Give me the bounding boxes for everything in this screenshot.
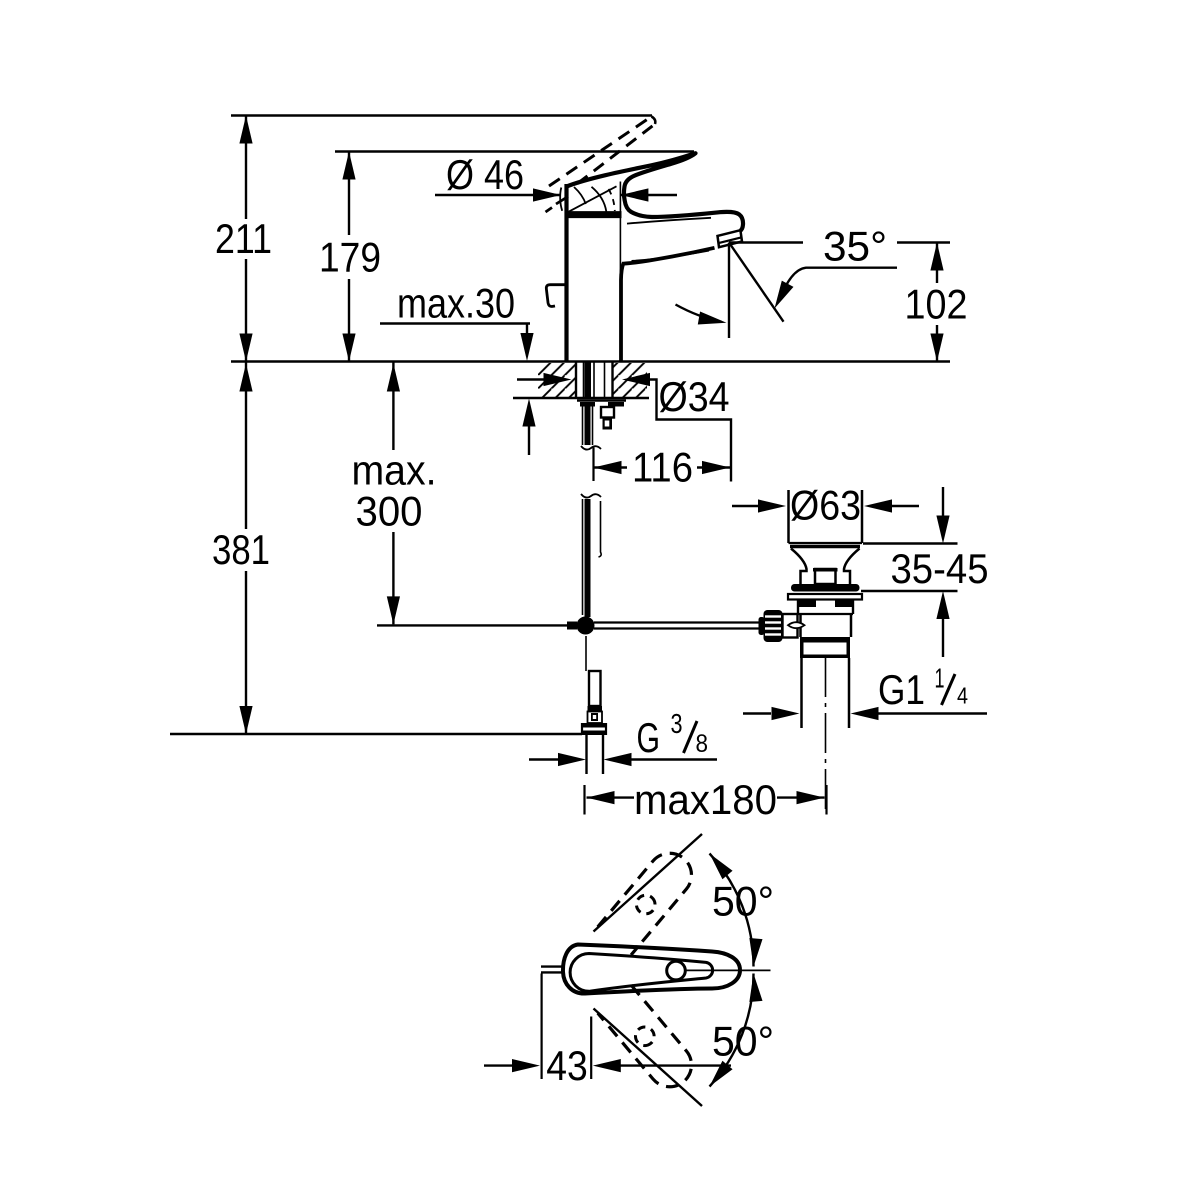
svg-text:max180: max180 — [634, 776, 777, 823]
svg-text:300: 300 — [356, 488, 423, 535]
svg-text:max.: max. — [352, 447, 437, 494]
svg-text:Ø 46: Ø 46 — [446, 151, 524, 198]
svg-text:50°: 50° — [712, 878, 774, 925]
svg-text:3: 3 — [671, 708, 683, 739]
svg-text:max.30: max.30 — [397, 280, 515, 327]
svg-text:1: 1 — [935, 663, 945, 694]
svg-text:35-45: 35-45 — [891, 545, 989, 592]
svg-text:43: 43 — [546, 1042, 588, 1089]
svg-text:8: 8 — [696, 730, 709, 758]
svg-text:102: 102 — [905, 281, 968, 328]
svg-text:211: 211 — [215, 215, 272, 262]
svg-text:G: G — [637, 714, 661, 761]
svg-text:G1: G1 — [878, 666, 925, 713]
svg-text:116: 116 — [632, 444, 693, 491]
svg-text:Ø34: Ø34 — [659, 373, 730, 420]
svg-text:179: 179 — [319, 234, 381, 281]
svg-text:50°: 50° — [712, 1018, 774, 1065]
svg-text:381: 381 — [212, 526, 270, 573]
svg-text:35°: 35° — [823, 222, 887, 269]
svg-text:4: 4 — [957, 683, 968, 709]
svg-text:Ø63: Ø63 — [790, 482, 861, 529]
